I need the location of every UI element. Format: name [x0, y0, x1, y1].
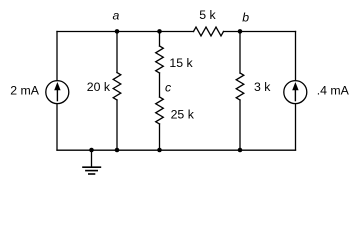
svg-text:.4 mA: .4 mA — [317, 83, 350, 97]
svg-text:a: a — [113, 9, 120, 23]
svg-text:25 k: 25 k — [171, 108, 195, 122]
svg-text:15 k: 15 k — [169, 56, 193, 70]
svg-text:2 mA: 2 mA — [10, 83, 39, 97]
svg-text:3 k: 3 k — [254, 80, 271, 94]
svg-text:c: c — [165, 80, 172, 94]
svg-text:20 k: 20 k — [87, 80, 111, 94]
svg-text:b: b — [242, 10, 249, 24]
svg-text:5 k: 5 k — [199, 8, 216, 22]
